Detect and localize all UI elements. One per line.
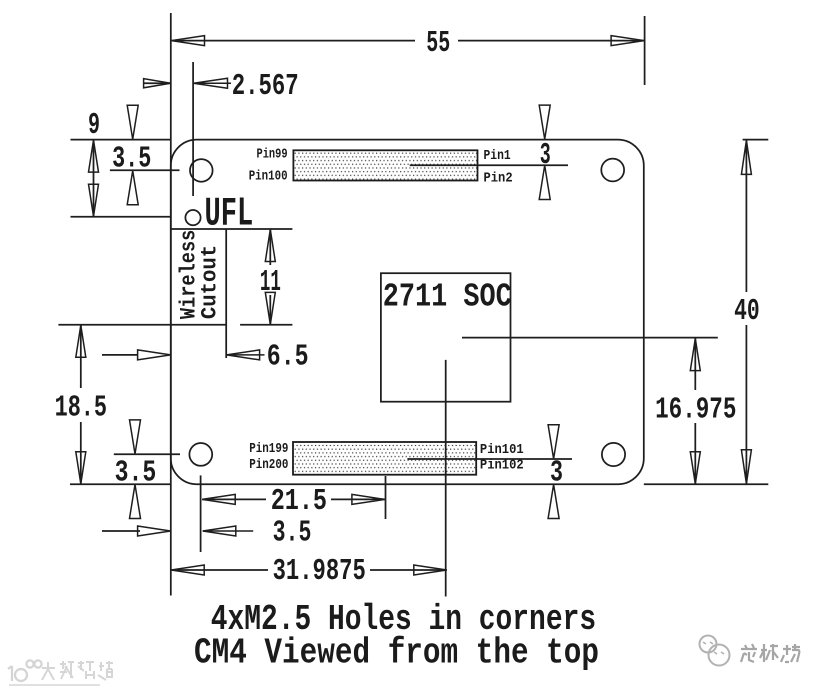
watermark right text (stylized CJK) (741, 644, 800, 662)
dim 11 line (269, 229, 271, 265)
svg-text:55: 55 (426, 26, 450, 61)
svg-text:Cutout: Cutout (198, 245, 223, 319)
svg-text:UFL: UFL (205, 192, 254, 238)
vertical extension line x=193 (2.567) (192, 62, 194, 196)
svg-text:3.5: 3.5 (273, 516, 312, 551)
svg-text:18.5: 18.5 (55, 391, 107, 426)
pin1/pin2 separator line (410, 164, 568, 166)
svg-text:3: 3 (540, 138, 551, 173)
bottom connector strip hatched (293, 442, 476, 475)
dim 18.5 line (80, 325, 82, 388)
watermark left text (stylized CJK) (42, 661, 113, 680)
UFL center line left of board (71, 216, 171, 218)
hole center line top-left (110, 169, 180, 171)
svg-text:Pin101: Pin101 (480, 442, 524, 458)
left vertical extension line (170, 13, 172, 596)
svg-text:CM4 Viewed from the top: CM4 Viewed from the top (194, 633, 599, 674)
dim 9 bottom arrow (89, 184, 99, 216)
dim 55 left arrow (172, 36, 205, 46)
pin101/pin102 separator line (407, 458, 572, 460)
svg-text:3: 3 (550, 456, 563, 491)
dim 18.5 bottom arrow (76, 452, 86, 484)
hole bottom-right (602, 443, 625, 466)
dim 6.5 right outside arrow (227, 350, 260, 360)
dim 3.5 bottom right outside arrow (203, 526, 236, 536)
svg-text:9: 9 (88, 108, 100, 143)
dim 55 right arrow (611, 36, 644, 46)
21.5 right extension line (385, 476, 387, 519)
watermark left underline (9, 684, 100, 686)
dim 11 top arrow (265, 230, 275, 262)
svg-text:31.9875: 31.9875 (273, 554, 366, 589)
dim 40 line (745, 140, 747, 292)
dim 2.567 right outside arrow (194, 78, 228, 88)
wireless cutout right edge (225, 229, 227, 358)
SOC center vertical line (445, 360, 447, 597)
dim 6.5 left outside arrow (102, 354, 138, 356)
watermark left logo (8, 660, 42, 681)
top connector strip hatched (293, 150, 477, 180)
top-right tick at top edge level (743, 139, 769, 141)
dim 21.5 right arrow (352, 494, 385, 504)
svg-text:Pin102: Pin102 (480, 457, 524, 473)
dim 16.975 line (694, 338, 696, 390)
dim 16.975 top arrow (690, 339, 700, 371)
dim 31.9875 line (171, 569, 268, 571)
dim 3 bottom-right upper arrow (548, 425, 559, 459)
dim 21.5 left arrow (202, 494, 235, 504)
2711 SOC square (381, 273, 511, 402)
hole center line bottom-left (114, 453, 180, 455)
svg-text:Pin99: Pin99 (257, 146, 288, 162)
dim 31.9875 left arrow (171, 565, 204, 575)
svg-text:3.5: 3.5 (115, 456, 157, 491)
dim 9 line (93, 140, 95, 217)
hole top-right (601, 159, 624, 182)
svg-text:40: 40 (734, 294, 760, 329)
dim 16.975 bottom arrow (690, 452, 700, 484)
svg-text:2711 SOC: 2711 SOC (383, 278, 512, 315)
dim 21.5 line (202, 498, 266, 500)
dim 40 bottom arrow (741, 450, 751, 484)
dim 11 bottom arrow (265, 292, 275, 324)
dim 9 top arrow (89, 140, 99, 172)
svg-text:6.5: 6.5 (267, 340, 309, 375)
svg-text:11: 11 (260, 265, 281, 300)
dim 2.567 left outside arrow (143, 82, 171, 84)
top edge left extension (71, 139, 172, 141)
dim 3 top-right lower arrow (539, 166, 550, 200)
hole center vertical extension bottom-left (200, 475, 202, 552)
board outline rounded rectangle (171, 140, 644, 485)
wireless cutout top line (171, 228, 293, 230)
dim 31.9875 right arrow (414, 565, 447, 575)
dim 3.5 top-left upper arrow (127, 105, 138, 139)
dim 3 top-right upper arrow (539, 105, 550, 139)
wireless cutout bottom line with left extension (58, 324, 226, 326)
dim 3.5 bottom left outside arrow (102, 530, 140, 532)
dim 3.5 bottom-left upper arrow (130, 420, 141, 454)
dim 3.5 bottom-left lower arrow (130, 485, 141, 519)
svg-text:Pin200: Pin200 (249, 457, 288, 473)
watermark right logo (700, 636, 730, 666)
SOC center horizontal line (462, 337, 718, 339)
dim 55 line (171, 40, 415, 42)
hole top-left (190, 159, 213, 182)
UFL connector circle (185, 210, 200, 225)
svg-text:Pin100: Pin100 (249, 169, 288, 185)
svg-text:3.5: 3.5 (112, 142, 151, 177)
svg-text:21.5: 21.5 (271, 484, 327, 519)
dim 40 top arrow (741, 140, 751, 174)
11 dim bottom tick (240, 324, 292, 326)
dim 3 bottom-right lower arrow (548, 485, 559, 519)
hole bottom-left (189, 443, 212, 466)
bottom edge left extension (70, 483, 171, 485)
svg-text:Pin1: Pin1 (484, 148, 511, 164)
svg-text:Pin199: Pin199 (249, 441, 288, 457)
55 dim right extension line (644, 16, 646, 85)
svg-text:Pin2: Pin2 (484, 170, 513, 186)
dim 3.5 top-left lower arrow (127, 171, 138, 205)
dim 18.5 top arrow (76, 325, 86, 357)
svg-text:16.975: 16.975 (655, 393, 736, 428)
svg-text:2.567: 2.567 (232, 69, 299, 104)
bottom edge right extension (644, 483, 769, 485)
